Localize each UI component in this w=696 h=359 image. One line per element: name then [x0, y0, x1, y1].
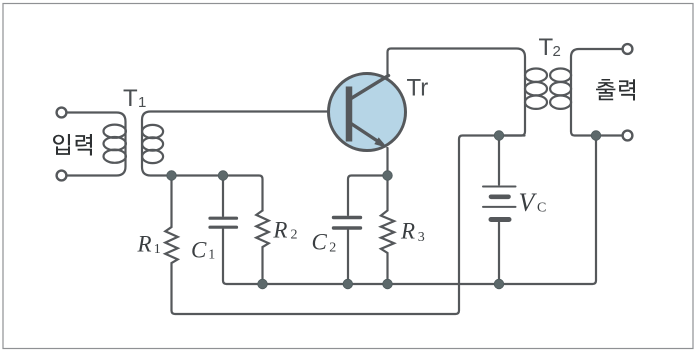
svg-text:T: T: [539, 34, 554, 61]
svg-text:2: 2: [553, 43, 561, 60]
svg-text:Tr: Tr: [407, 75, 429, 102]
svg-text:1: 1: [138, 94, 146, 111]
svg-text:R: R: [400, 219, 415, 244]
svg-text:2: 2: [329, 241, 336, 256]
svg-text:C: C: [312, 230, 328, 255]
svg-text:3: 3: [418, 230, 425, 245]
svg-text:C: C: [537, 201, 546, 216]
svg-text:R: R: [137, 231, 152, 256]
svg-text:1: 1: [208, 248, 215, 263]
svg-text:R: R: [272, 218, 287, 243]
svg-text:1: 1: [154, 242, 161, 257]
svg-text:T: T: [123, 85, 138, 112]
svg-text:2: 2: [291, 228, 298, 243]
svg-text:C: C: [191, 238, 207, 263]
